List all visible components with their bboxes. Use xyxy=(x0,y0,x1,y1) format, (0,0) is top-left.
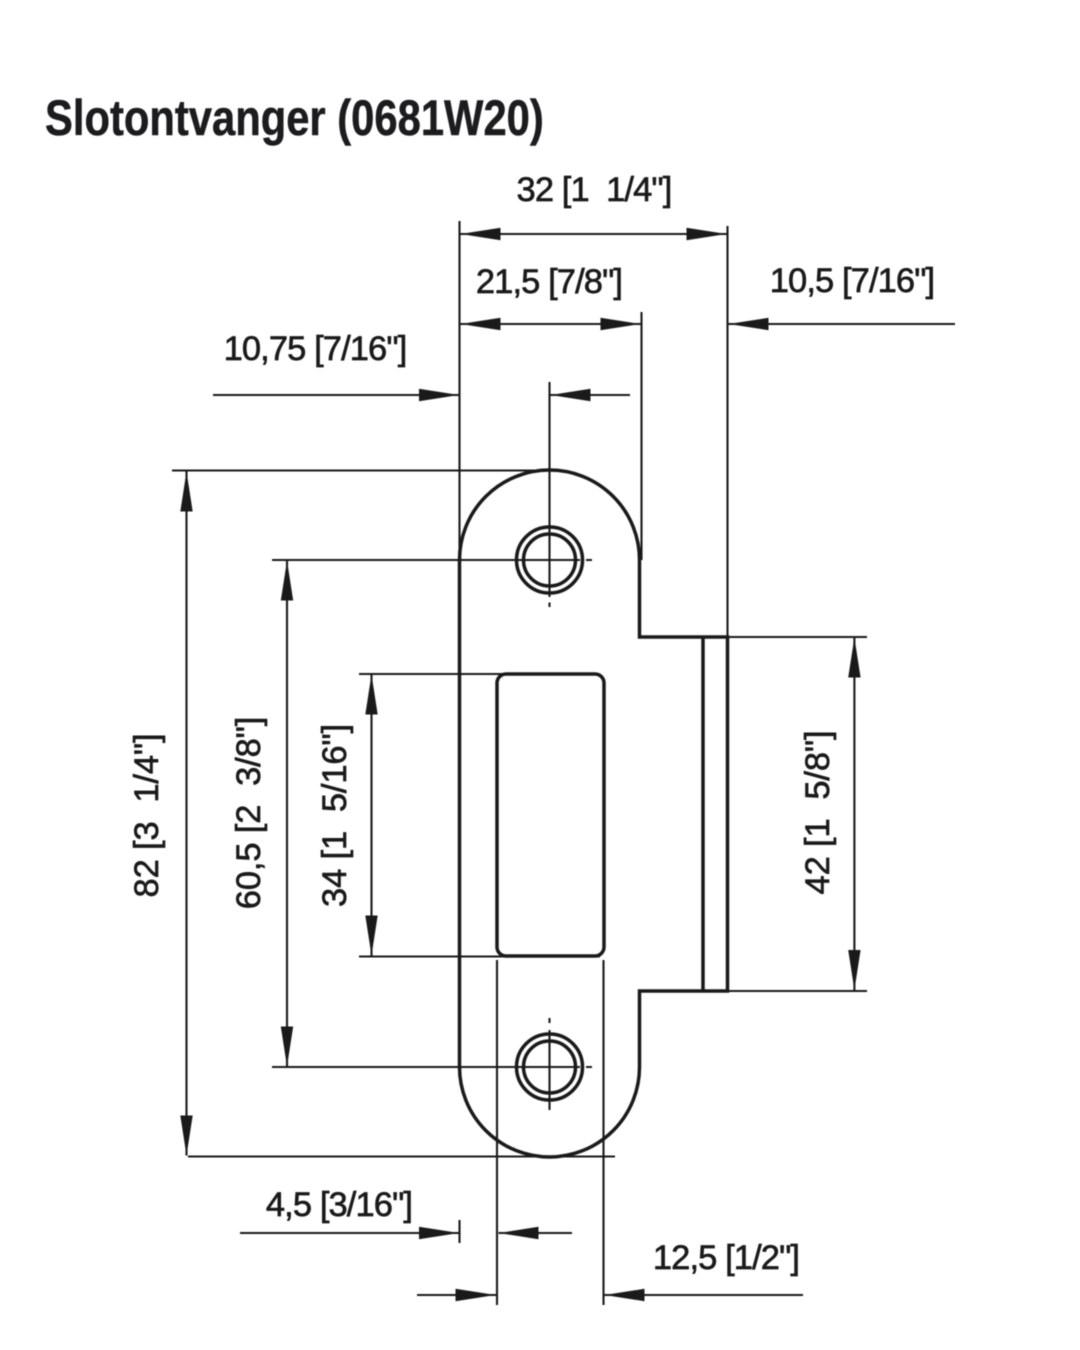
extension latch left down xyxy=(496,960,498,1305)
extension line plate left top xyxy=(458,221,460,560)
svg-text:10,75 [7/16"]: 10,75 [7/16"] xyxy=(224,330,407,368)
arrow 4.5 left xyxy=(419,1227,459,1239)
arrow 82 top xyxy=(180,472,192,512)
svg-text:4,5 [3/16"]: 4,5 [3/16"] xyxy=(266,1186,412,1224)
arrow 34 top xyxy=(365,675,377,715)
arrow 10.75 left xyxy=(419,389,459,401)
arrow 21.5 left xyxy=(461,318,501,330)
arrow 4.5 right xyxy=(499,1227,539,1239)
extension 42 bottom xyxy=(729,990,867,992)
dim line 34 xyxy=(370,675,372,956)
screw hole bottom outer xyxy=(517,1034,583,1100)
extension 42 top xyxy=(729,636,867,638)
dim 4.5 right tail xyxy=(499,1232,573,1234)
centerline top hole vertical xyxy=(548,382,550,607)
centerline top hole horizontal xyxy=(272,559,592,561)
dim 12.5 right tail xyxy=(605,1294,804,1296)
arrow 42 top xyxy=(848,638,860,678)
plate outline xyxy=(460,470,728,1157)
extension line plate face right (x=641.5) xyxy=(640,312,642,560)
extension line 82 top xyxy=(172,469,545,471)
svg-text:42 [1 5/8"]: 42 [1 5/8"] xyxy=(799,731,837,895)
screw hole bottom inner xyxy=(524,1041,576,1093)
dim line 10.5 tail xyxy=(729,323,956,325)
dim 12.5 left tail xyxy=(417,1294,497,1296)
dim line 42 xyxy=(853,638,855,991)
extension line plate right (x=727.5) xyxy=(726,226,728,637)
dim 10.75 left line xyxy=(213,394,460,396)
title xyxy=(45,93,544,143)
extension line 34 bottom xyxy=(359,955,600,957)
dim line 82 xyxy=(185,472,187,1156)
latch opening rectangle xyxy=(497,674,604,956)
arrow 10.5 xyxy=(729,318,769,330)
arrow 10.75 right xyxy=(551,389,591,401)
arrow 82 bottom xyxy=(180,1116,192,1156)
svg-text:21,5 [7/8"]: 21,5 [7/8"] xyxy=(476,263,622,301)
dim line 60.5 xyxy=(286,561,288,1067)
extension 4.5 left xyxy=(458,1220,460,1243)
svg-text:12,5 [1/2"]: 12,5 [1/2"] xyxy=(653,1239,799,1277)
extension latch right down xyxy=(602,960,604,1305)
dim line 21.5 xyxy=(461,323,641,325)
arrow 60.5 top xyxy=(281,561,293,601)
arrow 32 right xyxy=(687,228,727,240)
centerline bottom hole horizontal xyxy=(272,1066,592,1068)
centerline bottom hole vertical xyxy=(548,1018,550,1110)
svg-text:34 [1 5/16"]: 34 [1 5/16"] xyxy=(316,724,354,907)
screw hole top inner xyxy=(524,534,576,586)
arrow 34 bottom xyxy=(365,916,377,956)
arrow 12.5 left xyxy=(456,1289,496,1301)
flange bend line xyxy=(701,637,705,991)
svg-text:82 [3 1/4"]: 82 [3 1/4"] xyxy=(128,734,166,898)
extension line 82 bottom xyxy=(188,1155,615,1157)
arrow 21.5 right xyxy=(601,318,641,330)
svg-text:10,5 [7/16"]: 10,5 [7/16"] xyxy=(770,262,935,300)
extension line 34 top xyxy=(359,673,503,675)
arrow 12.5 right xyxy=(605,1289,645,1301)
screw hole top outer xyxy=(517,527,583,593)
svg-text:60,5 [2 3/8"]: 60,5 [2 3/8"] xyxy=(230,717,268,909)
arrow 32 left xyxy=(461,228,501,240)
dim 4.5 left line xyxy=(240,1232,460,1234)
svg-text:32 [1 1/4"]: 32 [1 1/4"] xyxy=(517,171,672,209)
dim 10.75 right tail xyxy=(551,394,631,396)
arrow 42 bottom xyxy=(848,950,860,990)
dim line 32 xyxy=(461,233,727,235)
arrow 60.5 bottom xyxy=(281,1027,293,1067)
